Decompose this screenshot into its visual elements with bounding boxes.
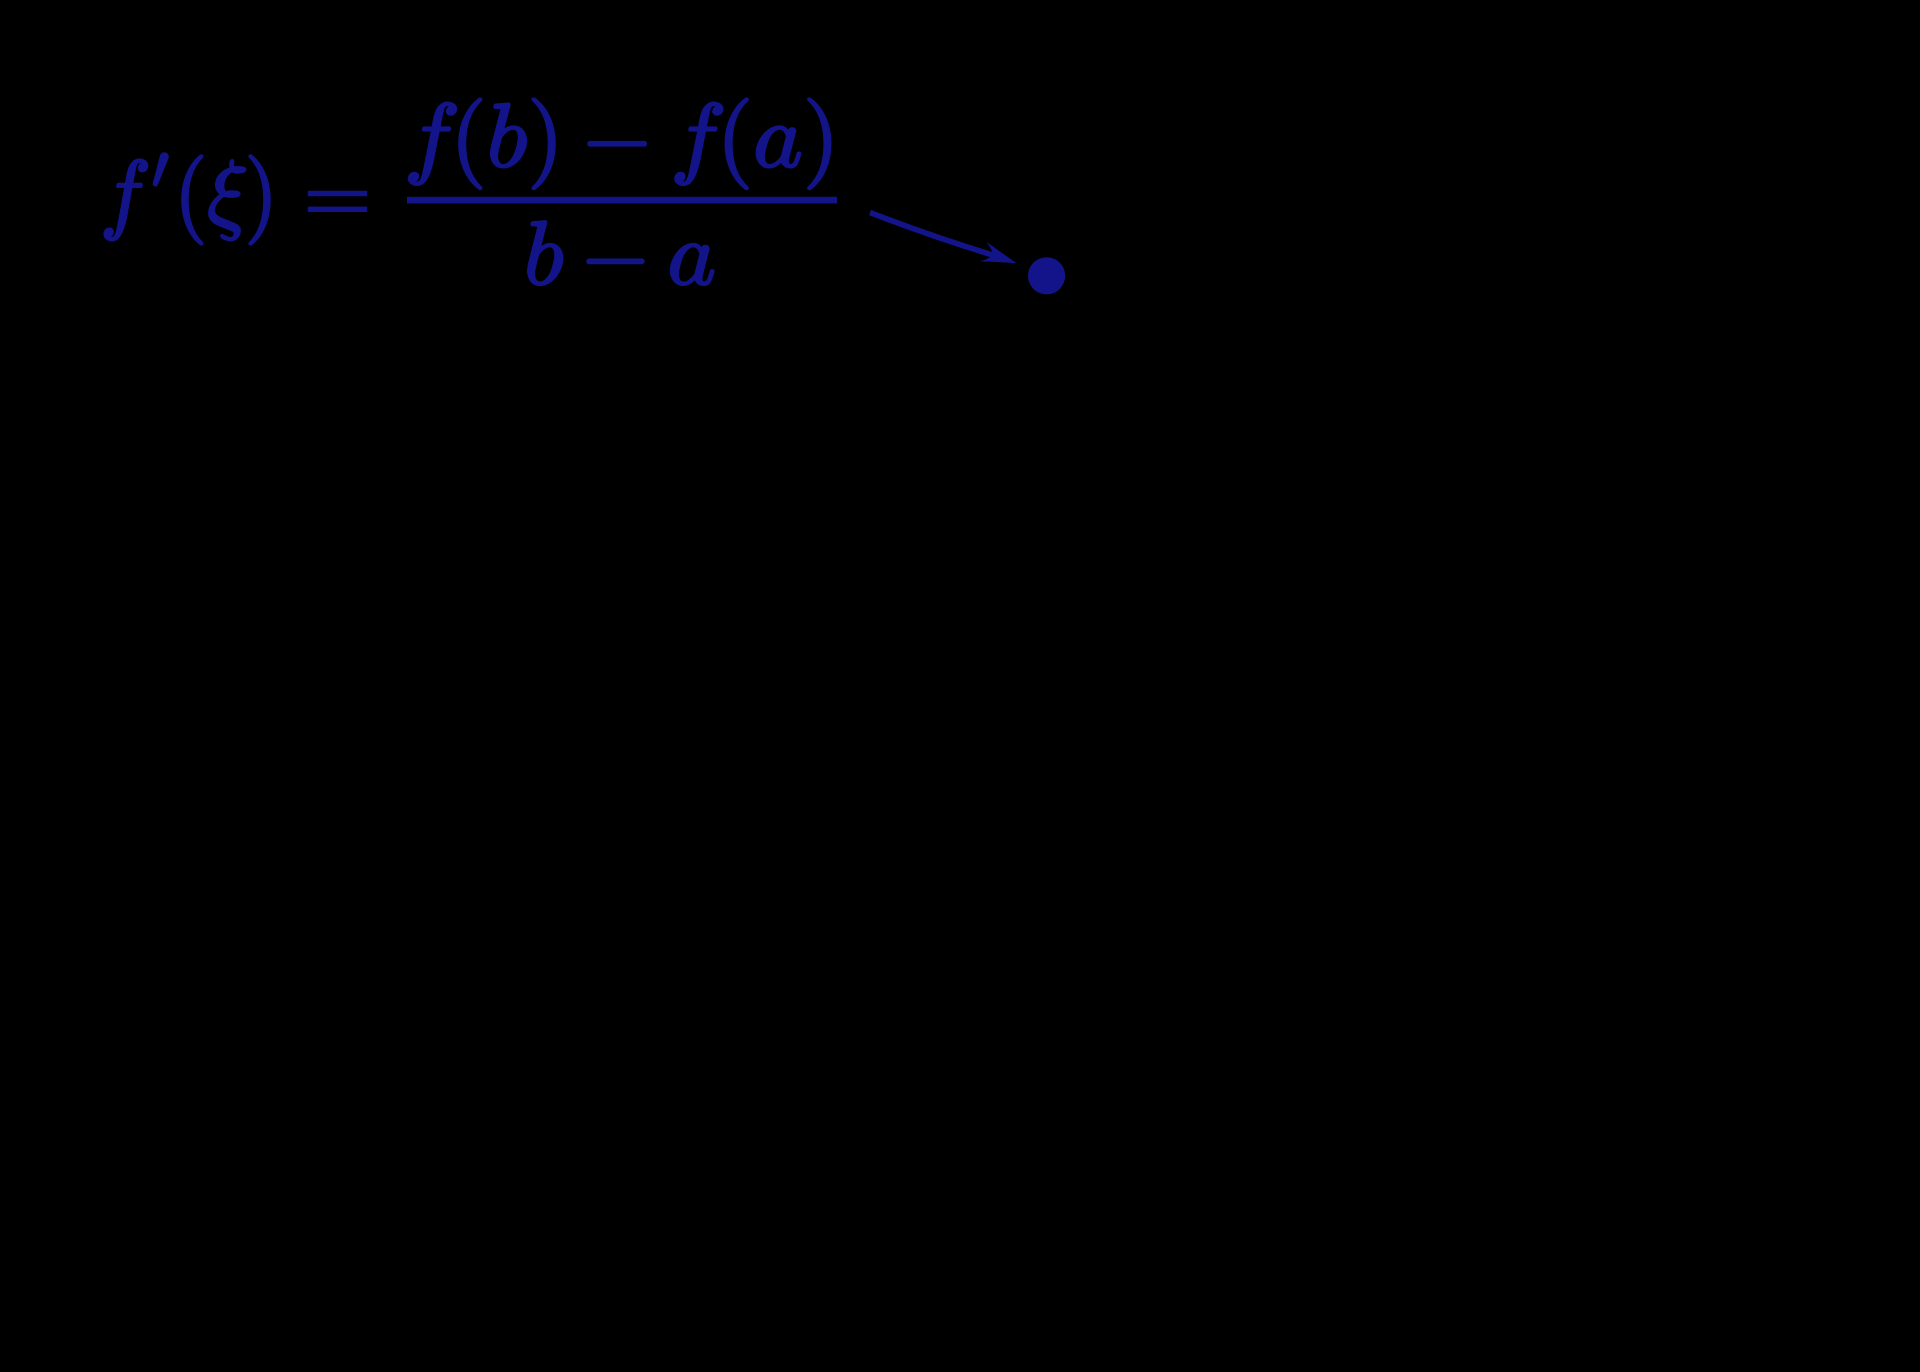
fraction denominator b - a — [528, 221, 714, 285]
arrowhead — [979, 242, 1020, 274]
fraction numerator f(b) - f(a) — [409, 99, 830, 189]
arrow shaft — [870, 213, 994, 256]
equals sign top bar — [308, 191, 367, 196]
equals sign bottom bar — [308, 207, 367, 212]
fraction bar — [407, 197, 837, 204]
formula lhs f'(xi) — [105, 153, 270, 244]
point dot — [1028, 257, 1065, 294]
